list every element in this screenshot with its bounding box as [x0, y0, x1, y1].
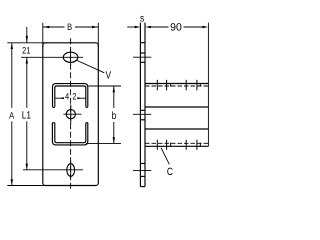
svg-text:b: b: [112, 110, 117, 122]
svg-text:V: V: [105, 70, 111, 82]
svg-text:B: B: [67, 22, 72, 32]
svg-text:90: 90: [170, 21, 182, 33]
svg-text:2: 2: [72, 91, 76, 101]
svg-text:A: A: [9, 110, 15, 120]
svg-text:C: C: [167, 166, 173, 178]
svg-text:21: 21: [22, 45, 30, 55]
svg-text:L1: L1: [22, 109, 31, 121]
svg-text:s: s: [140, 13, 144, 25]
svg-text:4: 4: [65, 91, 69, 101]
